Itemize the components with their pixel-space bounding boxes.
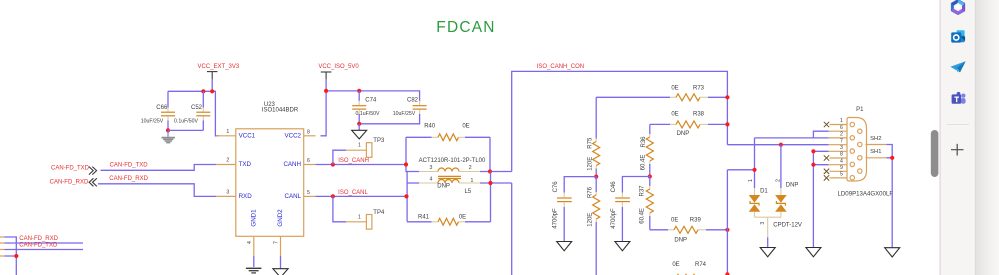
connector P1 shell — [847, 107, 867, 181]
ground arrow below C74 — [352, 124, 367, 139]
svg-text:L5: L5 — [464, 189, 471, 195]
svg-text:C82: C82 — [407, 97, 419, 103]
junction choke pin1 — [488, 181, 492, 185]
pin 7 stub — [829, 138, 848, 144]
wire ISO_CANH net — [316, 164, 407, 166]
svg-text:3: 3 — [226, 190, 229, 196]
bottom-left bus pin stub 2 — [0, 242, 5, 244]
svg-text:CAN-FD_RXD: CAN-FD_RXD — [109, 176, 148, 182]
svg-text:CAN-FD_TXD: CAN-FD_TXD — [110, 162, 149, 168]
svg-text:1: 1 — [358, 143, 361, 149]
svg-text:0E: 0E — [672, 262, 679, 268]
junction R38 right — [725, 122, 729, 126]
svg-text:3: 3 — [840, 145, 843, 151]
op-amp U23 ISO1044BDR body — [236, 102, 304, 236]
junction C52 tap — [201, 89, 205, 93]
svg-text:R76: R76 — [588, 186, 594, 198]
resistor R76 — [587, 177, 599, 275]
junction CANL — [404, 194, 408, 198]
junction R39 right — [725, 228, 729, 232]
capacitor C46 — [611, 177, 650, 242]
junction pin4 — [811, 163, 815, 167]
svg-text:4: 4 — [840, 158, 843, 164]
svg-text:3: 3 — [429, 165, 432, 171]
wire VCC_EXT_3V3 rail — [168, 79, 219, 136]
svg-text:1: 1 — [358, 215, 361, 221]
resistor R36 — [641, 124, 654, 176]
test point TP3 — [333, 138, 385, 165]
svg-text:1: 1 — [840, 118, 843, 124]
bottom-left bus pin stub 1 — [0, 236, 5, 238]
resistor R73 — [596, 85, 727, 101]
pin 5 stub with X — [824, 172, 847, 181]
wire bus line 4 — [5, 256, 17, 275]
svg-text:CAN-FD_TXD: CAN-FD_TXD — [19, 242, 58, 248]
svg-text:R38: R38 — [693, 112, 705, 118]
connector P1 pin circles left column — [850, 122, 854, 180]
svg-text:0E: 0E — [671, 85, 678, 91]
svg-text:R73: R73 — [693, 85, 705, 91]
pin SH2 — [866, 136, 887, 145]
svg-text:C66: C66 — [156, 105, 168, 111]
icon Teams — [952, 92, 966, 104]
pin 2 stub — [829, 132, 848, 138]
capacitor C52 — [174, 91, 210, 130]
junction pin3 — [811, 149, 815, 153]
svg-text:0E: 0E — [462, 123, 469, 129]
wire bus line 2 — [5, 242, 84, 244]
svg-text:FDCAN: FDCAN — [436, 19, 495, 36]
resistor R41 — [407, 214, 490, 225]
svg-text:CANL: CANL — [284, 193, 301, 200]
wire pins3/4 to ground — [813, 151, 828, 247]
wire SH2/SH1 to ground — [886, 145, 892, 248]
sidebar background — [941, 0, 999, 275]
test point TP4 — [333, 196, 385, 229]
svg-text:ISO1044BDR: ISO1044BDR — [262, 108, 299, 114]
svg-text:ISO_CANL: ISO_CANL — [338, 190, 368, 196]
svg-text:ISO_CANH: ISO_CANH — [338, 158, 369, 164]
svg-text:4: 4 — [247, 241, 253, 244]
wire VCC_ISO_5V0 rail — [321, 79, 420, 135]
svg-text:7: 7 — [840, 138, 843, 144]
svg-text:R39: R39 — [690, 218, 702, 224]
svg-text:4: 4 — [429, 177, 432, 183]
pin 1 VCC1 — [216, 135, 236, 137]
ground arrow below C46 — [615, 242, 630, 251]
wire CANH right vertical — [480, 137, 512, 171]
svg-text:VCC_ISO_5V0: VCC_ISO_5V0 — [318, 64, 359, 70]
svg-text:CAN-FD_RXD: CAN-FD_RXD — [19, 236, 58, 242]
svg-text:VCC1: VCC1 — [239, 132, 256, 139]
svg-text:DNP: DNP — [786, 183, 799, 189]
svg-text:P1: P1 — [856, 107, 864, 113]
svg-text:R74: R74 — [695, 262, 707, 268]
port CAN-FD_RXD — [50, 178, 97, 186]
svg-text:120E: 120E — [587, 213, 593, 227]
icon Telegram — [950, 61, 965, 72]
svg-text:60.4E: 60.4E — [641, 155, 647, 171]
connector P1 pin circles right column — [858, 129, 862, 173]
junction choke pin2 — [488, 169, 492, 173]
resistor R38 — [650, 112, 728, 137]
svg-text:R36: R36 — [641, 136, 647, 148]
svg-text:5: 5 — [307, 190, 310, 196]
svg-text:1: 1 — [226, 129, 229, 135]
svg-text:GND1: GND1 — [250, 209, 257, 227]
pin 4 stub — [829, 158, 848, 164]
capacitor C66 — [141, 91, 175, 130]
junction R36/R37/C46 — [648, 174, 652, 178]
bottom-left bus pin stub 4 — [0, 255, 5, 257]
svg-text:4700pF: 4700pF — [611, 208, 617, 229]
junction C66 bottom — [166, 128, 170, 132]
wire pin6 branch — [813, 131, 828, 138]
pin 7 GND2 — [274, 236, 281, 268]
svg-text:CPDT-12V: CPDT-12V — [773, 222, 802, 228]
wire CANL right vertical — [480, 172, 512, 222]
resistor R39 — [650, 218, 728, 244]
svg-text:8: 8 — [307, 129, 310, 135]
svg-text:5: 5 — [840, 172, 843, 178]
svg-text:2: 2 — [840, 132, 843, 138]
ground arrow below C76 — [557, 242, 572, 251]
pin 2 TXD — [216, 164, 236, 166]
capacitor C74 — [352, 91, 380, 124]
svg-text:R75: R75 — [588, 137, 594, 149]
svg-text:ACT1210R-101-2P-TL00: ACT1210R-101-2P-TL00 — [419, 158, 486, 164]
pin 5 CANL — [304, 195, 316, 197]
junction VCC flag tap — [210, 89, 214, 93]
pin 6 CANH — [304, 164, 316, 166]
pin 3 RXD — [216, 195, 236, 197]
capacitor C82 — [359, 97, 426, 123]
svg-text:4700pF: 4700pF — [553, 208, 559, 229]
svg-text:R37: R37 — [640, 185, 646, 197]
svg-text:6: 6 — [840, 125, 843, 131]
svg-text:CAN-FD_RXD: CAN-FD_RXD — [50, 179, 89, 185]
svg-text:C52: C52 — [191, 105, 203, 111]
wire CANL left vertical — [407, 172, 419, 222]
svg-text:9: 9 — [840, 165, 843, 171]
sidebar divider — [940, 0, 941, 275]
svg-text:DNP: DNP — [674, 237, 687, 243]
svg-text:C46: C46 — [611, 181, 617, 193]
resistor R40 — [406, 123, 490, 140]
junction TP4 tap — [331, 194, 335, 198]
svg-text:VCC2: VCC2 — [284, 132, 301, 139]
svg-text:1: 1 — [470, 178, 473, 184]
resistor R75 — [587, 97, 599, 176]
add button plus — [951, 144, 964, 156]
resistor R74 (clipped at bottom) — [672, 262, 706, 275]
wire DNP diode vertical — [780, 145, 782, 188]
svg-text:DNP: DNP — [437, 183, 450, 189]
pin 1 stub with X — [824, 118, 847, 127]
svg-text:GND2: GND2 — [277, 209, 284, 227]
svg-text:LD09P13A4GX00LF: LD09P13A4GX00LF — [838, 191, 894, 198]
svg-text:8: 8 — [840, 152, 843, 158]
svg-text:2: 2 — [775, 179, 781, 182]
ground arrow GND2 (clipped at bottom) — [273, 269, 288, 275]
svg-text:120E: 120E — [587, 157, 593, 171]
svg-text:2: 2 — [469, 165, 472, 171]
junction R74 right — [725, 272, 729, 275]
wire C66-C52 bottom — [168, 129, 203, 131]
svg-text:60.4E: 60.4E — [639, 208, 645, 224]
scrollbar thumb — [931, 130, 939, 177]
wire ISO_CANL net — [316, 195, 407, 197]
icon Copilot — [952, 1, 963, 14]
pin 3 stub — [829, 145, 848, 151]
svg-text:DNP: DNP — [677, 131, 690, 137]
svg-text:0E: 0E — [459, 214, 466, 220]
ground earth GND1 — [246, 268, 262, 273]
junction CANH — [404, 162, 408, 166]
power flag VCC_EXT_3V3 — [198, 64, 240, 79]
resistor R37 — [639, 177, 653, 230]
ground shaded earth below C66 — [162, 130, 176, 142]
svg-text:10uF/25V: 10uF/25V — [393, 111, 416, 117]
svg-text:TP4: TP4 — [373, 210, 385, 216]
junction D1 tap — [752, 168, 756, 172]
svg-text:TP3: TP3 — [373, 138, 385, 144]
svg-text:TXD: TXD — [239, 161, 252, 168]
wire bus line 3 — [5, 249, 84, 251]
svg-text:CANH: CANH — [283, 161, 301, 168]
ground arrow below D1 — [760, 248, 775, 257]
svg-text:6: 6 — [307, 158, 310, 164]
junction DNP diode tap — [779, 143, 783, 147]
svg-text:R41: R41 — [418, 214, 430, 220]
power flag VCC_ISO_5V0 — [318, 64, 359, 79]
wire RXD net — [98, 184, 216, 197]
junction VCC_ISO flag tap — [324, 89, 328, 93]
wire net pin2 row — [727, 138, 828, 188]
svg-text:ISO_CANH_CON: ISO_CANH_CON — [537, 64, 584, 70]
ground arrow pins3/4 — [806, 248, 821, 257]
svg-text:0.1uF/50V: 0.1uF/50V — [356, 111, 380, 117]
wire ISO_CANL_CON down — [511, 183, 513, 275]
junction SH1 — [890, 156, 894, 160]
svg-text:0.1uF/50V: 0.1uF/50V — [174, 119, 198, 125]
svg-text:3: 3 — [760, 222, 766, 225]
diode D1 unit A — [748, 179, 768, 217]
wire CANH left vertical — [406, 137, 419, 171]
svg-text:0E: 0E — [671, 112, 678, 118]
icon Outlook — [951, 30, 965, 42]
junction R75/R76/C76 — [594, 175, 598, 179]
svg-text:SH2: SH2 — [870, 136, 881, 142]
svg-text:C76: C76 — [553, 181, 559, 193]
svg-text:1: 1 — [748, 179, 754, 182]
svg-text:D1: D1 — [760, 189, 768, 195]
wire ISO_CANH_CON — [512, 71, 728, 171]
svg-text:RXD: RXD — [239, 193, 253, 200]
svg-text:VCC_EXT_3V3: VCC_EXT_3V3 — [198, 64, 240, 70]
wire CANH_CON vertical lower — [726, 170, 728, 275]
pin 9 stub with X — [824, 165, 847, 174]
pin 6 stub — [829, 125, 848, 131]
pin 8 VCC2 — [304, 135, 316, 137]
pin 8 stub with X — [824, 152, 847, 161]
sidebar inner edge — [975, 0, 976, 275]
svg-text:CAN-FD_TXD: CAN-FD_TXD — [51, 166, 90, 172]
diode D1 unit B (DNP) — [775, 179, 798, 217]
svg-text:C74: C74 — [365, 97, 377, 103]
capacitor C76 — [553, 177, 597, 242]
junction C74 bottom — [357, 122, 361, 126]
svg-text:SH1: SH1 — [870, 149, 881, 155]
wire net pin7 row — [727, 144, 828, 146]
wire TXD net — [101, 165, 217, 171]
junction bus — [14, 254, 18, 258]
sidebar section divider — [947, 124, 969, 125]
junction R73 right — [725, 95, 729, 99]
svg-text:7: 7 — [274, 241, 280, 244]
svg-text:R40: R40 — [424, 123, 436, 129]
junction TP3 tap — [331, 162, 335, 166]
bottom-left bus pin stub 3 — [0, 249, 5, 251]
svg-text:10uF/25V: 10uF/25V — [141, 119, 164, 125]
pin 4 GND1 — [247, 236, 254, 267]
ground arrow SH — [885, 248, 900, 257]
svg-text:0E: 0E — [671, 218, 678, 224]
common-mode choke L5 — [419, 158, 486, 195]
junction C74 top — [357, 89, 361, 93]
wire D1 common pin 3 — [755, 217, 802, 247]
pin SH1 — [866, 149, 887, 158]
svg-text:2: 2 — [226, 158, 229, 164]
wire bus line 1 — [5, 237, 17, 256]
port CAN-FD_TXD — [51, 166, 97, 175]
